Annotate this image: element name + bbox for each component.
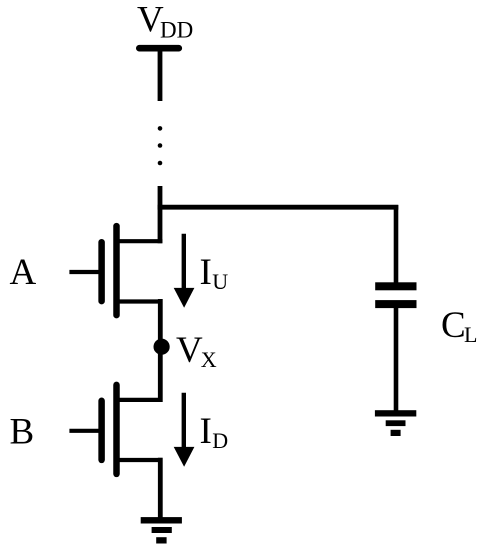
svg-text:DD: DD xyxy=(160,18,193,43)
capacitor C_L plates xyxy=(375,282,416,308)
gate bar of B xyxy=(98,401,105,460)
current arrow IU xyxy=(174,234,195,308)
svg-text:L: L xyxy=(464,322,477,347)
drain tap of A xyxy=(115,239,162,243)
label CL xyxy=(441,305,477,347)
wire from A source to B drain xyxy=(158,299,163,402)
svg-text:I: I xyxy=(200,252,212,293)
label ID xyxy=(200,411,229,453)
svg-text:U: U xyxy=(212,269,228,294)
current arrow ID xyxy=(174,393,195,467)
ground symbol (main, below transistor B) xyxy=(141,517,182,543)
svg-text:A: A xyxy=(10,252,37,293)
ground symbol under CL xyxy=(375,410,416,436)
channel bar of B xyxy=(113,385,120,474)
drain tap of B xyxy=(115,398,162,402)
transistor A (NMOS, gate A) xyxy=(69,226,162,315)
gate wire of B xyxy=(69,429,100,433)
channel bar of A xyxy=(113,226,120,315)
node VX junction dot xyxy=(154,339,170,355)
wire resuming below dots to transistor A drain xyxy=(158,186,163,243)
wire from VDD rail down xyxy=(158,48,163,101)
label VDD xyxy=(137,0,193,43)
svg-text:C: C xyxy=(441,305,466,346)
wire from B source to ground xyxy=(158,458,163,519)
wire horizontal branch to capacitor xyxy=(158,205,399,210)
svg-text:V: V xyxy=(176,330,203,371)
source tap of B xyxy=(115,458,162,462)
svg-text:D: D xyxy=(212,428,228,453)
svg-text:X: X xyxy=(201,347,217,372)
gate wire of A xyxy=(69,270,100,274)
gate bar of A xyxy=(98,242,105,301)
wire capacitor top lead xyxy=(394,205,399,285)
wire capacitor bottom lead xyxy=(394,305,399,412)
source tap of A xyxy=(115,299,162,303)
svg-text:B: B xyxy=(10,411,35,452)
vertical ellipsis dots (omitted circuitry) xyxy=(158,126,163,165)
label IU xyxy=(200,252,229,294)
power supply VDD rail symbol xyxy=(139,45,179,52)
svg-text:I: I xyxy=(200,411,212,452)
label VX xyxy=(176,330,217,372)
transistor B (NMOS, gate B) xyxy=(69,385,162,474)
